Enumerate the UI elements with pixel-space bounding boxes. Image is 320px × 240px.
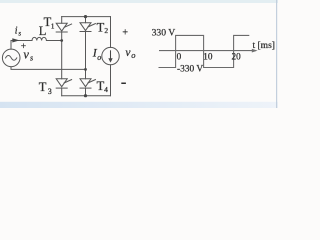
svg-text:s: s xyxy=(18,29,21,37)
svg-text:o: o xyxy=(97,53,101,62)
svg-text:2: 2 xyxy=(104,26,108,35)
svg-text:0: 0 xyxy=(177,51,182,61)
svg-text:t [ms]: t [ms] xyxy=(253,41,275,51)
svg-text:o: o xyxy=(131,50,135,60)
svg-text:330 V: 330 V xyxy=(152,28,176,39)
svg-text:10: 10 xyxy=(203,51,213,61)
svg-text:1: 1 xyxy=(51,21,55,30)
svg-text:20: 20 xyxy=(232,51,242,61)
svg-text:3: 3 xyxy=(48,87,52,96)
svg-text:T: T xyxy=(39,80,47,94)
svg-text:s: s xyxy=(30,53,33,62)
svg-text:+: + xyxy=(122,28,128,39)
svg-text:4: 4 xyxy=(104,85,108,94)
svg-text:i: i xyxy=(15,26,18,37)
svg-text:v: v xyxy=(23,48,29,62)
svg-text:T: T xyxy=(97,20,105,34)
svg-text:-330 V: -330 V xyxy=(177,65,203,75)
